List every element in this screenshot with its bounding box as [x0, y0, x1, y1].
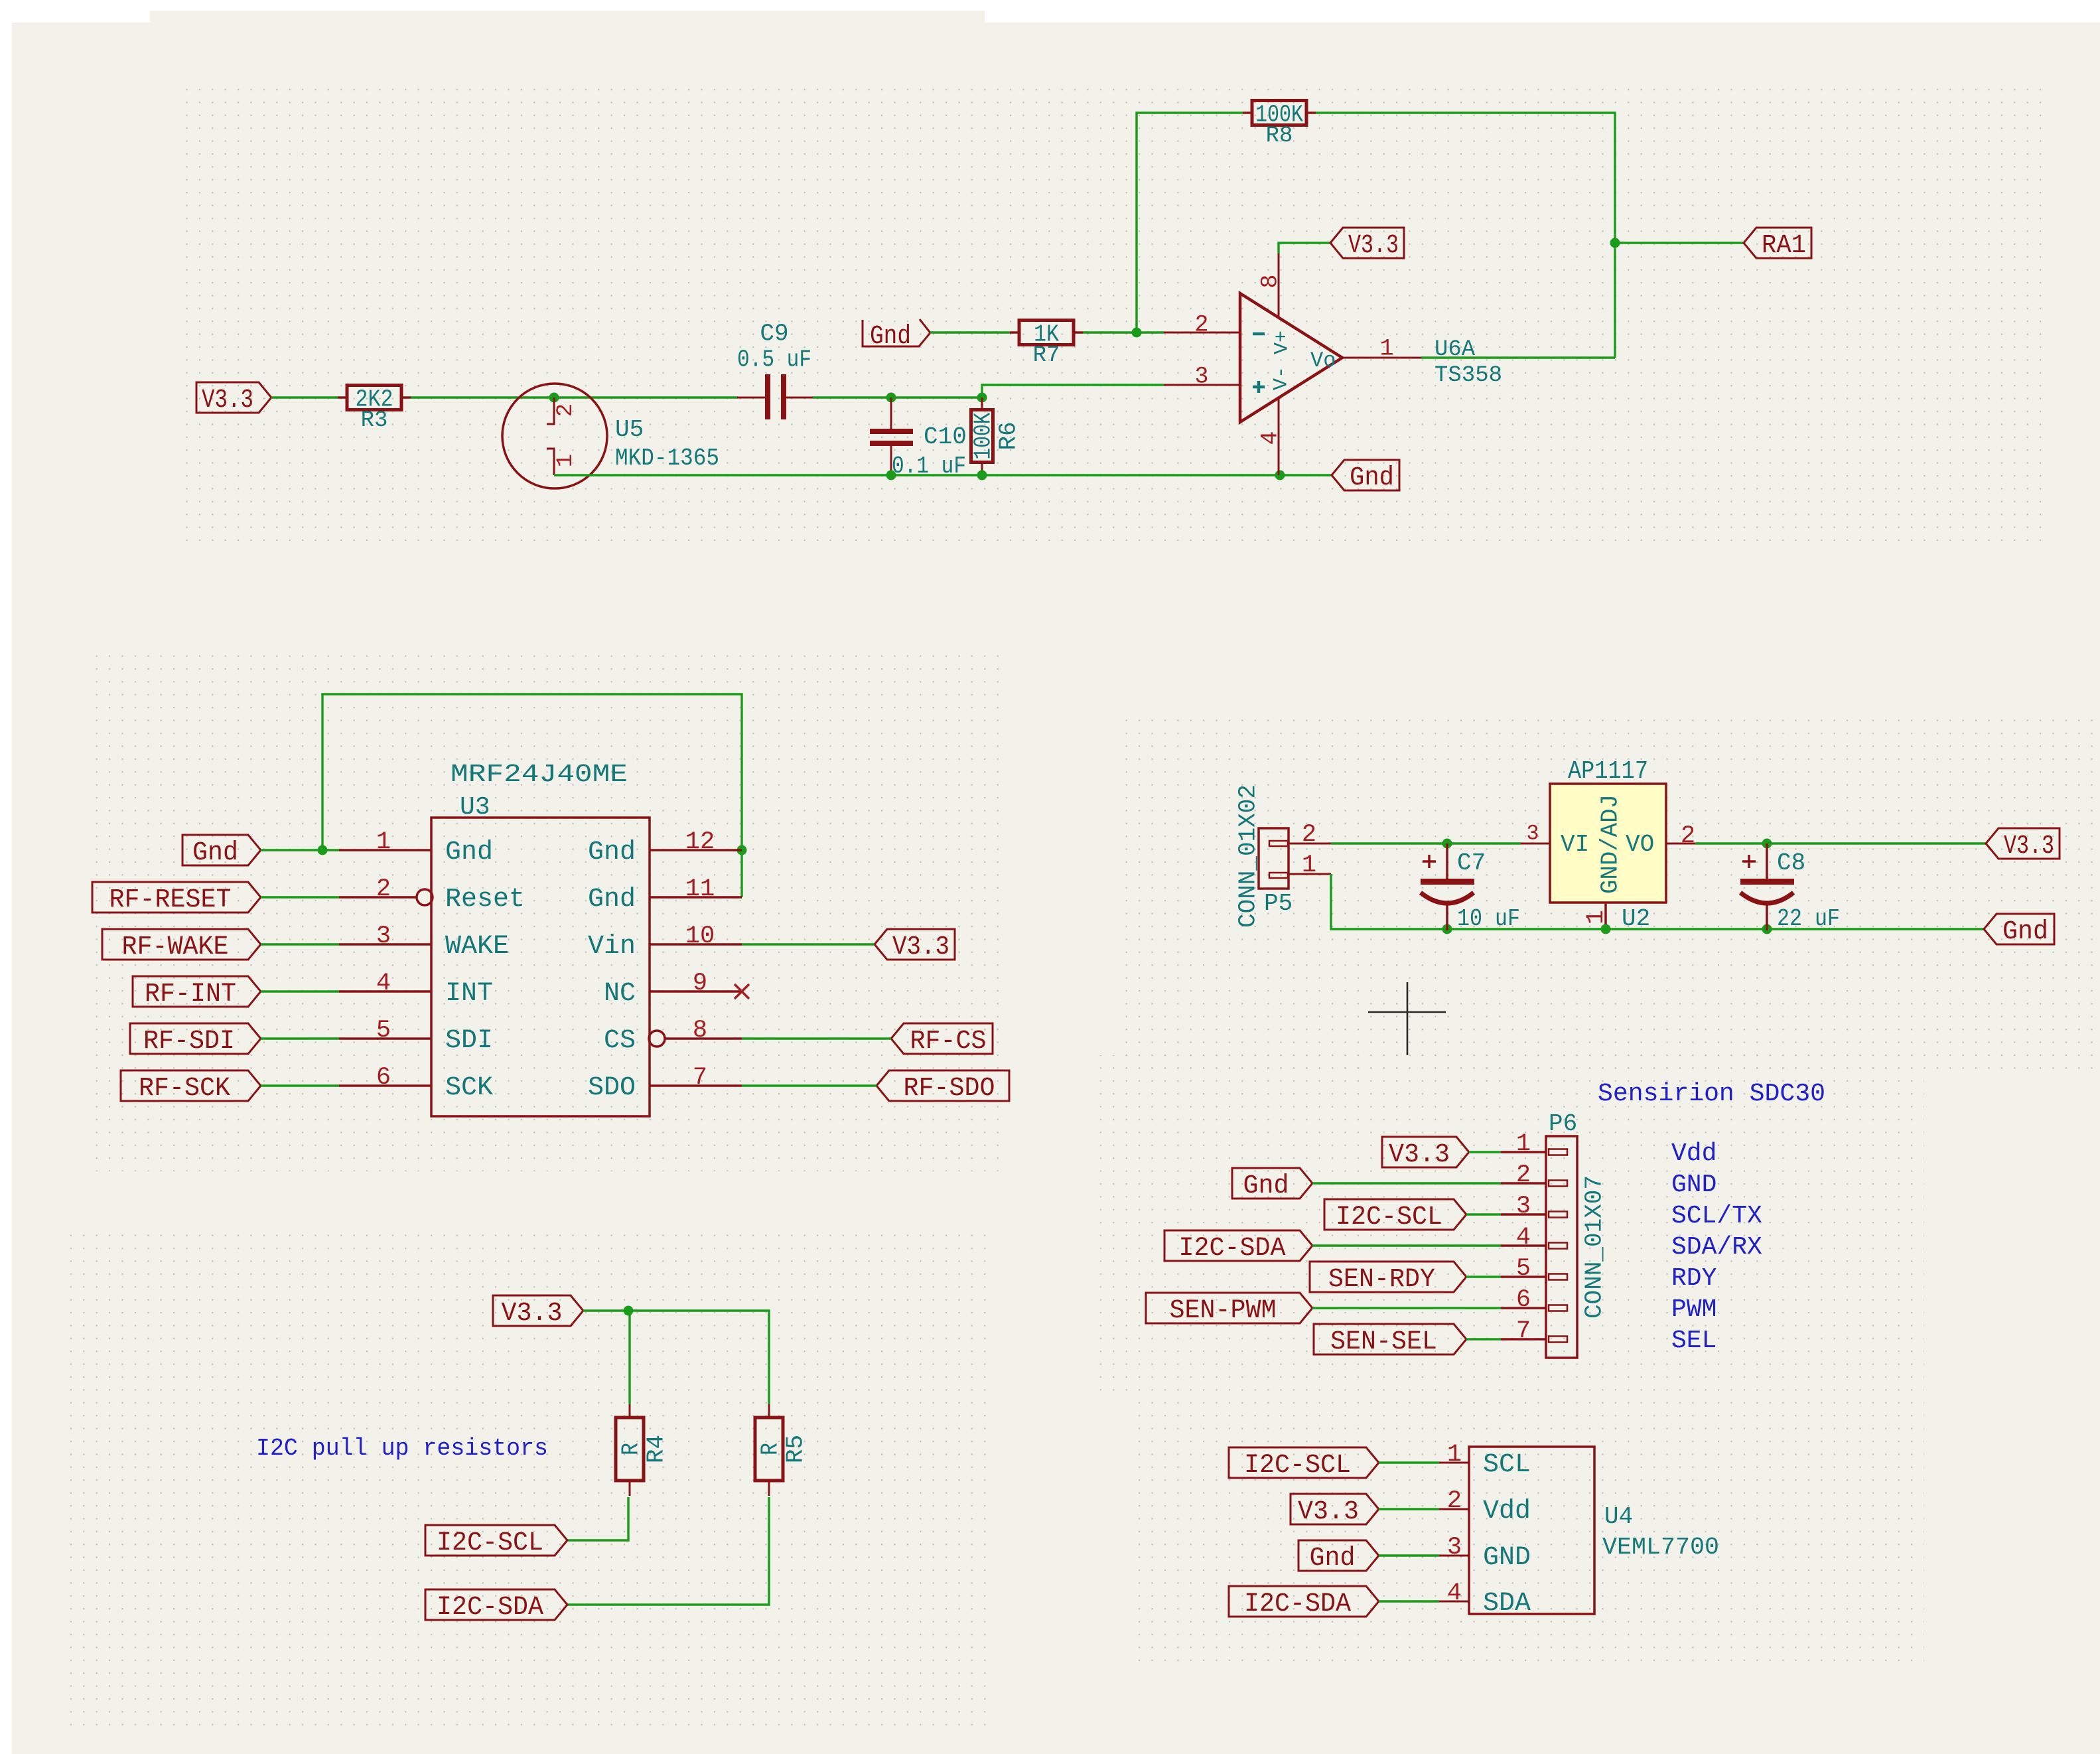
connector P6 CONN_01X07: [1546, 1136, 1577, 1358]
svg-text:SCK: SCK: [445, 1073, 493, 1103]
svg-text:V3.3: V3.3: [892, 932, 949, 962]
P5 value CONN_01X02: [1235, 784, 1262, 928]
svg-text:12: 12: [685, 828, 715, 856]
junction C8 bottom: [1762, 924, 1772, 934]
svg-text:3: 3: [1447, 1534, 1462, 1562]
resistor R3 2K2: [338, 396, 347, 399]
power label Gnd U4: [1298, 1540, 1379, 1571]
svg-text:1: 1: [376, 828, 391, 856]
signal label SEN-SEL: [1314, 1324, 1466, 1354]
junction U3 pin12 node: [737, 845, 747, 855]
U3 pin 4 INT: [339, 990, 431, 993]
svg-text:Gnd: Gnd: [1350, 463, 1394, 493]
wire U3 pin8 to RF-CS: [742, 1037, 891, 1039]
svg-text:9: 9: [693, 970, 707, 997]
svg-text:3: 3: [376, 922, 391, 950]
svg-text:1: 1: [553, 454, 579, 467]
wire P5 pin2 to VI: [1331, 842, 1521, 844]
svg-text:U5: U5: [615, 416, 644, 443]
wire to RA1: [1615, 242, 1744, 244]
P6 pin 2: [1501, 1181, 1567, 1187]
svg-text:4: 4: [1447, 1579, 1462, 1607]
svg-text:PWM: PWM: [1671, 1295, 1716, 1324]
svg-text:2: 2: [1516, 1161, 1531, 1189]
wire label to U4 pin: [1379, 1554, 1439, 1556]
svg-text:R7: R7: [1033, 343, 1060, 368]
svg-text:11: 11: [685, 875, 715, 903]
power label V3.3 regulator out: [1986, 828, 2060, 859]
wire U3 pin7 to RF-SDO: [742, 1084, 876, 1086]
power label V3.3 P6 pin1: [1382, 1137, 1469, 1167]
wire label to P6 pin: [1312, 1244, 1501, 1246]
wire opamp output: [1421, 356, 1615, 358]
svg-text:I2C-SCL: I2C-SCL: [1336, 1203, 1442, 1232]
svg-text:VI: VI: [1561, 831, 1589, 858]
svg-text:RF-WAKE: RF-WAKE: [122, 932, 229, 962]
junction output to RA1: [1610, 238, 1620, 248]
svg-text:R3: R3: [361, 408, 388, 433]
wire label to U4 pin: [1379, 1508, 1439, 1510]
svg-text:RF-SCK: RF-SCK: [139, 1074, 230, 1104]
svg-text:V3.3: V3.3: [1389, 1140, 1450, 1170]
wire label to P6 pin: [1466, 1213, 1501, 1215]
signal label RF-RESET: [92, 882, 261, 913]
svg-text:R5: R5: [782, 1435, 809, 1463]
svg-text:SEL: SEL: [1671, 1327, 1716, 1355]
svg-text:V3.3: V3.3: [502, 1299, 563, 1329]
power label V3.3 U3 pin10: [875, 929, 955, 960]
wire ground rail AP1117: [1331, 874, 1984, 929]
junction pullup node: [624, 1306, 634, 1316]
signal label I2C-SDA pullup: [425, 1589, 567, 1620]
svg-text:5: 5: [376, 1017, 391, 1045]
capacitor C7 10uF: [1421, 843, 1474, 930]
signal label RF-SDI: [130, 1023, 261, 1054]
resistor R6 100K: [981, 397, 983, 410]
U4 pin 4 SDA: [1439, 1601, 1469, 1603]
svg-text:7: 7: [1516, 1317, 1531, 1345]
svg-text:SDI: SDI: [445, 1026, 493, 1056]
svg-text:10 uF: 10 uF: [1457, 905, 1520, 932]
svg-text:3: 3: [1526, 821, 1539, 845]
svg-text:GND: GND: [1483, 1543, 1531, 1573]
op-amp U6A TS358: [1164, 254, 1421, 475]
svg-text:GND: GND: [1671, 1171, 1716, 1199]
wire label to P6 pin: [1466, 1276, 1501, 1278]
signal label I2C-SCL U4: [1229, 1447, 1379, 1478]
wire node to R6: [891, 396, 982, 398]
svg-text:R4: R4: [643, 1435, 670, 1463]
svg-text:AP1117: AP1117: [1568, 757, 1648, 786]
svg-text:RF-SDI: RF-SDI: [143, 1027, 235, 1057]
U3 pin 7 SDO: [650, 1084, 742, 1087]
svg-text:V+: V+: [1271, 330, 1294, 354]
U3 pin 10 Vin: [650, 943, 742, 946]
svg-text:NC: NC: [604, 979, 636, 1009]
signal label I2C-SCL P6: [1324, 1199, 1466, 1230]
pin number 8: [1257, 274, 1283, 288]
power label V3.3 at pin8: [1330, 228, 1404, 258]
svg-text:5: 5: [1516, 1255, 1531, 1283]
svg-text:Vin: Vin: [588, 932, 636, 962]
P6 pin 4: [1501, 1243, 1567, 1249]
power label Gnd U3 pin1: [182, 835, 261, 865]
signal label RA1: [1744, 228, 1811, 258]
U3 pin 1 Gnd: [339, 849, 431, 851]
op-amp V- marking: [1271, 366, 1293, 390]
svg-text:0.5 uF: 0.5 uF: [737, 346, 811, 374]
svg-text:Reset: Reset: [445, 885, 525, 914]
wire R4 to I2C-SCL: [567, 1497, 628, 1540]
svg-text:1: 1: [1447, 1441, 1462, 1469]
U2 pin 1: [1604, 903, 1607, 929]
wire R3 to C9: [411, 396, 738, 398]
wire label to P6 pin: [1466, 1338, 1501, 1340]
U2 pin 2: [1666, 843, 1695, 845]
resistor R8 100K: [1243, 111, 1252, 114]
wire R7 to opamp pin2: [1083, 331, 1164, 333]
svg-text:RF-INT: RF-INT: [145, 980, 236, 1009]
power label Gnd at R7: [863, 319, 930, 346]
signal label SEN-RDY: [1310, 1262, 1466, 1292]
wire C9 to node: [813, 396, 891, 398]
svg-text:GND/ADJ: GND/ADJ: [1597, 794, 1624, 894]
wire label to U3 pin: [261, 943, 339, 945]
signal label I2C-SDA U4: [1229, 1586, 1379, 1617]
svg-text:1: 1: [1582, 910, 1610, 924]
P6 pin 1: [1501, 1149, 1567, 1155]
svg-text:Gnd: Gnd: [1310, 1544, 1356, 1573]
svg-text:RDY: RDY: [1671, 1264, 1717, 1293]
svg-text:Vo: Vo: [1310, 348, 1336, 373]
junction U2 pin1: [1601, 924, 1611, 934]
wire Gnd to R7: [930, 331, 1010, 333]
wire label to U3 pin: [261, 849, 339, 851]
svg-text:VEML7700: VEML7700: [1602, 1534, 1719, 1561]
wire feedback to R8: [1137, 113, 1243, 332]
wire label to U3 pin: [261, 990, 339, 992]
svg-text:CS: CS: [604, 1026, 636, 1056]
svg-text:R6: R6: [995, 421, 1022, 450]
svg-text:C7: C7: [1457, 849, 1486, 877]
power label Gnd P6 pin2: [1232, 1168, 1312, 1199]
U3 pin 5 SDI: [339, 1037, 431, 1040]
junction opamp pin4: [1275, 471, 1285, 480]
svg-text:C10: C10: [924, 423, 967, 451]
svg-text:I2C-SDA: I2C-SDA: [437, 1593, 543, 1623]
svg-text:RF-RESET: RF-RESET: [109, 885, 232, 915]
svg-text:Vdd: Vdd: [1671, 1139, 1716, 1168]
P6 value CONN_01X07: [1581, 1175, 1608, 1319]
svg-text:U3: U3: [460, 793, 490, 822]
wire V3.3 to R3: [271, 396, 338, 398]
svg-text:MKD-1365: MKD-1365: [615, 445, 719, 472]
junction C7 top: [1442, 839, 1452, 849]
svg-text:SEN-RDY: SEN-RDY: [1328, 1265, 1435, 1295]
junction C7 bottom: [1442, 924, 1452, 934]
P6 pin 7: [1501, 1337, 1567, 1343]
wire label to P6 pin: [1312, 1307, 1501, 1309]
svg-text:2: 2: [1302, 821, 1316, 849]
signal label RF-SCK: [121, 1070, 261, 1101]
svg-text:6: 6: [1516, 1286, 1531, 1314]
U3 pin 11 Gnd: [650, 896, 742, 899]
wire label to U3 pin: [261, 896, 339, 898]
capacitor C10 0.1uF: [870, 398, 913, 475]
svg-text:Sensirion SDC30: Sensirion SDC30: [1598, 1080, 1825, 1108]
junction R6 bottom: [977, 471, 987, 480]
junction feedback node: [1132, 328, 1142, 338]
resistor R7 1K: [1010, 331, 1019, 334]
pin number 2 of U5: [553, 403, 579, 417]
svg-text:SEN-SEL: SEN-SEL: [1330, 1327, 1437, 1357]
svg-text:R: R: [618, 1443, 645, 1455]
svg-text:7: 7: [693, 1064, 707, 1092]
svg-text:CONN_01X02: CONN_01X02: [1235, 784, 1262, 928]
svg-text:P5: P5: [1264, 890, 1293, 917]
connector P5 CONN_01X02: [1259, 828, 1331, 889]
signal label I2C-SCL pullup: [425, 1525, 567, 1556]
wire R5 to I2C-SDA: [567, 1497, 769, 1605]
IC U3 MRF24J40ME: [431, 818, 650, 1116]
svg-text:Vdd: Vdd: [1483, 1497, 1531, 1526]
svg-text:Gnd: Gnd: [588, 885, 636, 914]
svg-text:SDO: SDO: [588, 1073, 636, 1103]
svg-text:10: 10: [685, 922, 715, 950]
junction C8 top: [1762, 839, 1772, 849]
svg-text:R8: R8: [1266, 123, 1293, 149]
pin number 1 of U5: [553, 454, 579, 467]
svg-text:Gnd: Gnd: [192, 838, 238, 868]
svg-text:I2C-SCL: I2C-SCL: [437, 1528, 543, 1558]
svg-text:6: 6: [376, 1064, 391, 1092]
svg-text:SCL: SCL: [1483, 1450, 1531, 1480]
svg-text:2: 2: [1194, 311, 1208, 338]
signal label RF-SDO: [876, 1070, 1009, 1101]
U3 pin 9 NC: [650, 990, 742, 993]
wire gnd loop over U3: [322, 694, 742, 897]
wire R6 node to opamp pin3: [982, 385, 1164, 398]
U4 pin 3 GND: [1439, 1555, 1469, 1557]
capacitor C8 22uF: [1740, 843, 1794, 930]
svg-text:SDA: SDA: [1483, 1589, 1531, 1619]
signal label SEN-PWM: [1146, 1293, 1312, 1323]
svg-text:1: 1: [1379, 335, 1393, 362]
power label V3.3 U4: [1291, 1494, 1379, 1524]
svg-text:4: 4: [1257, 431, 1283, 445]
resistor R5: [768, 1404, 770, 1418]
U3 pin 12 Gnd: [650, 849, 742, 851]
svg-text:C9: C9: [760, 321, 788, 348]
wire U3 pin10 to V3.3: [742, 943, 875, 945]
power label V3.3 pullups: [493, 1295, 583, 1326]
wire label to U3 pin: [261, 1037, 339, 1039]
wire V3.3 to R5: [583, 1311, 769, 1404]
svg-text:SCL/TX: SCL/TX: [1671, 1202, 1762, 1230]
svg-text:Gnd: Gnd: [870, 322, 911, 352]
svg-text:V3.3: V3.3: [1348, 231, 1399, 261]
junction C10 bottom: [886, 471, 896, 480]
pin number 4: [1257, 431, 1283, 445]
wire V3.3 to pin8: [1279, 243, 1330, 254]
wire label to U4 pin: [1379, 1600, 1439, 1602]
svg-text:SEN-PWM: SEN-PWM: [1170, 1296, 1277, 1326]
svg-text:Gnd: Gnd: [445, 838, 493, 867]
svg-text:SDA/RX: SDA/RX: [1671, 1233, 1762, 1262]
svg-text:P6: P6: [1549, 1110, 1577, 1137]
svg-text:3: 3: [1194, 363, 1208, 390]
U3 pin 8 CS: [649, 1031, 742, 1047]
svg-text:4: 4: [1516, 1224, 1531, 1252]
svg-text:VO: VO: [1626, 831, 1654, 858]
svg-text:V3.3: V3.3: [1298, 1497, 1359, 1527]
svg-text:MRF24J40ME: MRF24J40ME: [451, 761, 628, 789]
op-amp V+ marking: [1271, 330, 1294, 354]
IC U4 VEML7700: [1469, 1447, 1594, 1614]
svg-text:C8: C8: [1777, 849, 1805, 877]
svg-text:I2C-SDA: I2C-SDA: [1244, 1589, 1351, 1619]
svg-text:V-: V-: [1271, 366, 1293, 390]
capacitor C9 0.5uF: [737, 374, 813, 419]
svg-text:8: 8: [693, 1017, 707, 1045]
svg-text:2: 2: [376, 875, 391, 903]
U3 pin 2 Reset: [339, 889, 433, 905]
wire label to U3 pin: [261, 1084, 339, 1086]
svg-text:RF-CS: RF-CS: [910, 1027, 987, 1057]
pin number 1: [1582, 910, 1610, 924]
svg-text:Gnd: Gnd: [2002, 917, 2048, 947]
svg-text:1: 1: [1516, 1130, 1531, 1158]
signal label RF-WAKE: [102, 929, 261, 960]
svg-text:CONN_01X07: CONN_01X07: [1581, 1175, 1608, 1319]
wire R8 to output node: [1316, 113, 1615, 358]
P6 pin 3: [1501, 1212, 1567, 1218]
svg-text:I2C-SDA: I2C-SDA: [1179, 1234, 1286, 1264]
svg-text:3: 3: [1516, 1193, 1531, 1220]
svg-text:V3.3: V3.3: [2004, 832, 2054, 861]
svg-text:8: 8: [1257, 274, 1283, 288]
U3 pin 3 WAKE: [339, 943, 431, 946]
U2 pin name GND/ADJ: [1597, 794, 1624, 894]
regulator U2 AP1117: [1550, 784, 1666, 903]
wire node to R4: [628, 1311, 630, 1404]
svg-text:I2C-SCL: I2C-SCL: [1244, 1451, 1351, 1481]
junction C10 top: [886, 393, 896, 403]
P6 pin 6: [1501, 1305, 1567, 1311]
U3 pin 6 SCK: [339, 1084, 431, 1087]
svg-text:R: R: [757, 1443, 784, 1455]
microphone U5 MKD-1365: [502, 384, 607, 488]
wire label to P6 pin: [1469, 1151, 1501, 1153]
svg-text:100K: 100K: [970, 412, 997, 459]
svg-text:2: 2: [1447, 1487, 1462, 1515]
junction U5 pin2 node: [549, 393, 559, 403]
svg-text:Gnd: Gnd: [1243, 1171, 1289, 1201]
power label V3.3: [196, 382, 271, 413]
svg-text:TS358: TS358: [1435, 363, 1502, 388]
svg-text:Gnd: Gnd: [588, 838, 636, 867]
svg-text:4: 4: [376, 970, 391, 997]
P6 pin 5: [1501, 1274, 1567, 1280]
svg-text:WAKE: WAKE: [445, 932, 509, 962]
U4 pin 2 Vdd: [1439, 1508, 1469, 1510]
svg-text:22 uF: 22 uF: [1777, 905, 1840, 932]
svg-text:V3.3: V3.3: [202, 386, 253, 415]
svg-text:U4: U4: [1604, 1503, 1633, 1530]
no-connect X on pin 9: [735, 984, 749, 999]
wire ground rail: [554, 474, 1332, 476]
svg-text:2: 2: [553, 403, 579, 417]
signal label RF-CS: [891, 1023, 993, 1054]
svg-text:I2C pull up resistors: I2C pull up resistors: [256, 1435, 548, 1462]
wire label to P6 pin: [1312, 1182, 1501, 1184]
power label Gnd bottom: [1332, 460, 1399, 490]
junction R6 top: [977, 393, 987, 403]
svg-text:RA1: RA1: [1762, 231, 1806, 261]
wire VO to V3.3: [1695, 842, 1986, 844]
svg-text:INT: INT: [445, 979, 493, 1009]
resistor R4: [629, 1404, 631, 1418]
svg-text:1: 1: [1302, 851, 1316, 879]
svg-text:RF-SDO: RF-SDO: [904, 1074, 995, 1104]
power label Gnd regulator: [1984, 914, 2054, 944]
junction U3 pin1 node: [318, 845, 328, 855]
U2 pin 3: [1521, 843, 1550, 845]
signal label RF-INT: [133, 976, 261, 1007]
signal label I2C-SDA P6: [1164, 1230, 1312, 1261]
svg-text:2: 2: [1681, 822, 1695, 850]
wire label to U4 pin: [1379, 1461, 1439, 1463]
U4 pin 1 SCL: [1439, 1462, 1469, 1464]
cursor crosshair mark: [1368, 982, 1446, 1055]
